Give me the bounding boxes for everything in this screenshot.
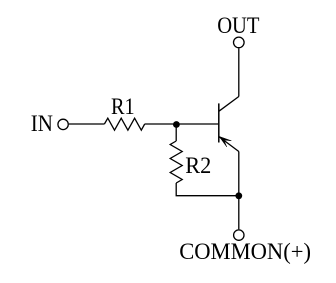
junction node base [173, 121, 180, 128]
wire OUT to collector [238, 48, 240, 96]
wire R2 bottom [176, 183, 239, 196]
svg-text:R1: R1 [111, 94, 135, 120]
terminal IN [58, 119, 68, 129]
svg-text:OUT: OUT [217, 13, 259, 39]
terminal COMMON [234, 230, 244, 240]
svg-text:R2: R2 [185, 153, 211, 179]
wire node to R2 [175, 124, 177, 141]
svg-text:COMMON(+): COMMON(+) [179, 239, 311, 265]
terminal OUT [234, 37, 245, 48]
wire emitter to COMMON terminal [238, 152, 240, 230]
transistor Q1 collector [219, 97, 239, 112]
svg-text:IN: IN [31, 111, 53, 137]
wire R1 to base [145, 123, 219, 125]
transistor Q1 emitter arrow (PNP) [219, 136, 231, 147]
junction node emitter/common [235, 192, 242, 199]
transistor Q1 emitter [219, 137, 239, 152]
resistor R2 [170, 141, 182, 183]
wire IN to R1 [69, 123, 105, 125]
resistor R1 [104, 118, 144, 130]
transistor Q1 base bar [218, 103, 220, 142]
